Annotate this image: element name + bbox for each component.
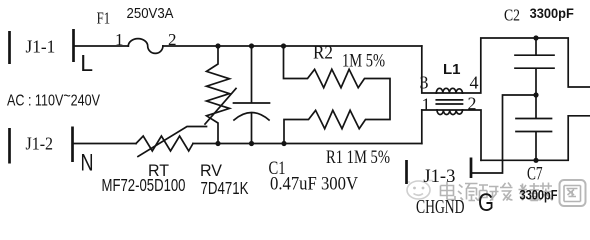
svg-text:L1: L1 [443, 61, 461, 78]
svg-text:CHGND: CHGND [416, 196, 465, 218]
svg-text:R2: R2 [313, 43, 333, 64]
svg-text:4: 4 [470, 73, 479, 93]
svg-text:1: 1 [115, 30, 124, 49]
svg-text:MF72-05D100: MF72-05D100 [102, 175, 186, 195]
svg-text:F1: F1 [97, 9, 111, 28]
svg-text:2: 2 [468, 94, 477, 114]
svg-text:250V3A: 250V3A [127, 6, 174, 22]
svg-text:N: N [81, 149, 94, 176]
svg-text:L: L [80, 50, 93, 76]
svg-text:0.47uF 300V: 0.47uF 300V [270, 174, 358, 195]
svg-text:3300pF: 3300pF [530, 6, 574, 21]
svg-text:7D471K: 7D471K [201, 178, 249, 198]
svg-text:1: 1 [422, 95, 431, 115]
svg-text:3: 3 [420, 73, 429, 93]
svg-text:R1 1M 5%: R1 1M 5% [326, 147, 390, 168]
svg-text:2: 2 [168, 30, 177, 49]
svg-text:C2: C2 [504, 6, 520, 25]
svg-text:J1-1: J1-1 [26, 37, 56, 57]
svg-text:1M 5%: 1M 5% [342, 51, 385, 72]
svg-text:J1-2: J1-2 [26, 133, 54, 153]
svg-text:3300pF: 3300pF [520, 188, 558, 203]
svg-text:J1-3: J1-3 [423, 167, 455, 187]
svg-text:C7: C7 [527, 165, 543, 185]
svg-text:G: G [478, 189, 494, 217]
